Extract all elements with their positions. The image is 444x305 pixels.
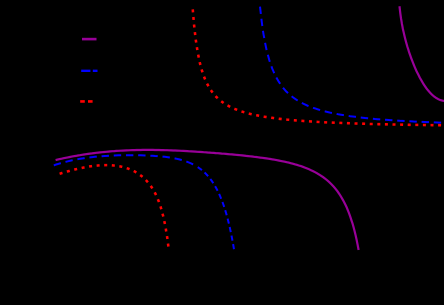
blue dashed solution curve, lower branch (flat part) xyxy=(54,155,196,166)
red dotted solution curve, lower branch xyxy=(56,165,169,250)
red dotted solution curve, upper branch xyxy=(192,5,444,126)
magenta solid solution curve, upper branch xyxy=(400,6,444,101)
legend red dotted line sample xyxy=(80,100,94,103)
legend blue dashed line sample xyxy=(81,70,97,72)
magenta solid solution curve, lower branch xyxy=(56,150,359,250)
blue dashed solution curve, upper branch xyxy=(260,5,444,123)
blue dashed solution curve, lower branch (steep plunge) xyxy=(196,166,234,250)
legend magenta solid line sample xyxy=(82,38,97,41)
